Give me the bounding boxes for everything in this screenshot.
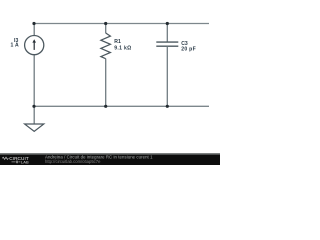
svg-text:http://circuitlab.com/c6ap5c7e: http://circuitlab.com/c6ap5c7e (45, 159, 101, 164)
CircuitLab logo zigzag (2, 157, 8, 159)
CircuitLab logo capacitor glyph (12, 161, 21, 164)
wire top horizontal (34, 23, 209, 25)
ground stub wire (33, 106, 35, 124)
node dot top-left (32, 22, 35, 25)
wire capacitor top lead (166, 24, 168, 43)
wire capacitor bottom lead (166, 46, 168, 106)
node dot bottom resistor (104, 105, 107, 108)
svg-text:R1: R1 (114, 39, 121, 45)
current source I3 arrow (32, 39, 36, 50)
svg-text:1 A: 1 A (11, 42, 19, 48)
node dot bottom capacitor (166, 105, 169, 108)
svg-text:LAB: LAB (21, 160, 29, 165)
node dot top resistor (104, 22, 107, 25)
current source I3 circle (25, 36, 44, 55)
footer bar top highlight (0, 153, 220, 155)
wire current source bottom lead (33, 54, 35, 106)
node dot top capacitor (166, 22, 169, 25)
svg-text:9.1 kΩ: 9.1 kΩ (114, 46, 131, 52)
wire resistor top lead (105, 24, 107, 34)
node dot bottom-left (32, 105, 35, 108)
capacitor C3 bottom plate (156, 45, 178, 47)
svg-text:20 pF: 20 pF (181, 46, 196, 52)
capacitor C3 top plate (156, 41, 178, 43)
footer bar (0, 153, 220, 165)
wire bottom horizontal (34, 105, 209, 107)
ground (25, 124, 44, 131)
wire current source top lead (33, 24, 35, 37)
resistor R1 zigzag (101, 33, 111, 59)
wire resistor bottom lead (105, 59, 107, 107)
